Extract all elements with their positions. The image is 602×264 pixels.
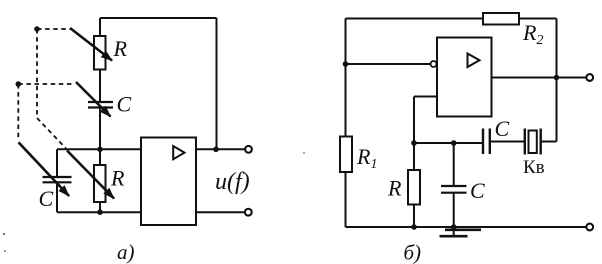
ground symbol bar 1 bbox=[445, 229, 481, 232]
junction dot at bottom R / bottom rail bbox=[97, 209, 103, 215]
wire: parallel-section left vertical (to bottom C) bbox=[56, 149, 58, 177]
crystal XT1 left plate bbox=[524, 129, 526, 155]
resistor R1 body bbox=[340, 137, 352, 173]
wire: feedback top rail (left part) bbox=[346, 18, 484, 20]
capacitor C body (vertical, b) bbox=[441, 186, 467, 193]
ground symbol bar 2 bbox=[440, 235, 468, 238]
wire: from top rail down to resistor R top bbox=[99, 18, 101, 36]
terminal: output bottom (open circle) bbox=[586, 224, 593, 231]
wire: right vertical drop to output node bbox=[216, 18, 218, 149]
svg-text:а): а) bbox=[117, 240, 135, 264]
wire: R bottom to capacitor C top plate bbox=[99, 70, 101, 103]
wire: left vertical from top rail to R1 bbox=[345, 19, 347, 137]
capacitor C (variable, middle) plates bbox=[88, 102, 113, 108]
wire: R bottom to ground rail bbox=[413, 205, 415, 228]
gang dashed link: dot2 to middle C arrow bbox=[18, 83, 74, 85]
gang dashed link node dot 2 bbox=[15, 81, 21, 87]
gang dashed link: dot1 vertical bbox=[36, 29, 38, 118]
wire: op-amp output to terminal bbox=[492, 77, 587, 79]
wire: top rail from R top to right vertical bbox=[100, 17, 217, 19]
wire: node A down to resistor R (bottom) top bbox=[99, 149, 101, 165]
gang dashed link: diagonal to bottom R arrow bbox=[37, 118, 66, 149]
svg-text:R: R bbox=[113, 36, 128, 61]
gang dashed link node dot 1 bbox=[34, 26, 40, 32]
crystal XT1 right plate bbox=[540, 129, 542, 155]
node A junction dot bbox=[97, 147, 103, 153]
junction dot at C branch bbox=[451, 140, 457, 146]
svg-text:R2: R2 bbox=[522, 20, 543, 48]
svg-text:Кв: Кв bbox=[523, 157, 545, 178]
wire: RC node horizontal rail bbox=[414, 142, 483, 144]
terminal: output bottom (open circle) bbox=[245, 209, 252, 216]
svg-text:R: R bbox=[110, 166, 125, 191]
junction dot at inverting input node bbox=[343, 61, 349, 67]
svg-text:u(f): u(f) bbox=[215, 169, 250, 195]
wire: below bottom C to bottom rail bbox=[56, 182, 58, 212]
wire: op-amp second input left stub bbox=[414, 96, 437, 98]
resistor R (variable, bottom) body bbox=[94, 165, 106, 202]
junction dot R-ground rail bbox=[411, 224, 417, 230]
resistor R2 body bbox=[483, 13, 519, 25]
arrow of variable capacitor C (bottom), ganged: solid diagonal bbox=[19, 142, 70, 196]
svg-text:C: C bbox=[117, 92, 132, 117]
svg-text:б): б) bbox=[404, 241, 422, 264]
junction dot output node bbox=[213, 147, 219, 153]
gang dashed link: dot2 vertical to bottom C arrow bbox=[17, 84, 19, 141]
wire: amplifier output to terminal bbox=[196, 148, 246, 150]
junction dot output/feedback node bbox=[554, 75, 560, 81]
capacitor C (variable, bottom-left) plates bbox=[43, 177, 72, 182]
wire: C bottom plate to ground rail bbox=[453, 193, 455, 227]
svg-text:C: C bbox=[470, 178, 485, 203]
resistor R1a (variable R, top) body bbox=[94, 36, 106, 70]
wire: crystal to feedback vertical bbox=[541, 141, 557, 143]
wire: right feedback vertical to crystal branch bbox=[556, 19, 558, 142]
arrow of variable resistor R (top), ganged bbox=[70, 28, 112, 61]
crystal XT1 body bbox=[529, 131, 537, 154]
terminal: output top (open circle) bbox=[245, 146, 252, 153]
wire: parallel-section top rail bbox=[57, 148, 142, 150]
arrow of variable resistor R (bottom), ganged bbox=[67, 151, 114, 199]
wire: to op-amp inverting input bbox=[346, 63, 431, 65]
svg-text:C: C bbox=[39, 186, 54, 211]
svg-text:R1: R1 bbox=[356, 144, 377, 172]
amplifier U1 body bbox=[141, 138, 196, 226]
gang dashed link: dot1 to top R arrow bbox=[37, 28, 70, 30]
wire: second input vertical down to RC node bbox=[413, 97, 415, 144]
terminal: output top (open circle) bbox=[586, 74, 593, 81]
junction dot C-ground rail bbox=[451, 224, 457, 230]
resistor R body (b) bbox=[408, 170, 420, 205]
ground symbol stub bbox=[453, 227, 455, 235]
wire: series C to crystal bbox=[490, 141, 525, 143]
wire: parallel-section bottom rail bbox=[57, 211, 142, 213]
wire: ground bottom rail bbox=[346, 226, 587, 228]
op-amp U2 triangle symbol bbox=[468, 54, 480, 68]
capacitor C series body (plates) bbox=[483, 129, 490, 155]
wire: down to capacitor C top plate bbox=[453, 143, 455, 186]
wire: bottom output to terminal bbox=[196, 211, 245, 213]
svg-text:C: C bbox=[495, 116, 510, 141]
op-amp U2 body bbox=[437, 38, 492, 117]
svg-text:R: R bbox=[387, 176, 402, 201]
wire: C bottom plate down to node A bbox=[99, 108, 101, 150]
op-amp U2 inverting input circle bbox=[431, 61, 437, 67]
scan speck noise bbox=[303, 152, 305, 154]
wire: feedback top rail (right part) bbox=[519, 18, 557, 20]
amplifier U1 triangle symbol bbox=[173, 146, 184, 159]
wire: R1 bottom to ground rail bbox=[345, 172, 347, 227]
arrow of variable capacitor C (middle), ganged bbox=[76, 82, 111, 117]
junction dot at R branch bbox=[411, 140, 417, 146]
wire: bottom R to bottom rail bbox=[99, 202, 101, 212]
wire: down to resistor R top bbox=[413, 143, 415, 170]
